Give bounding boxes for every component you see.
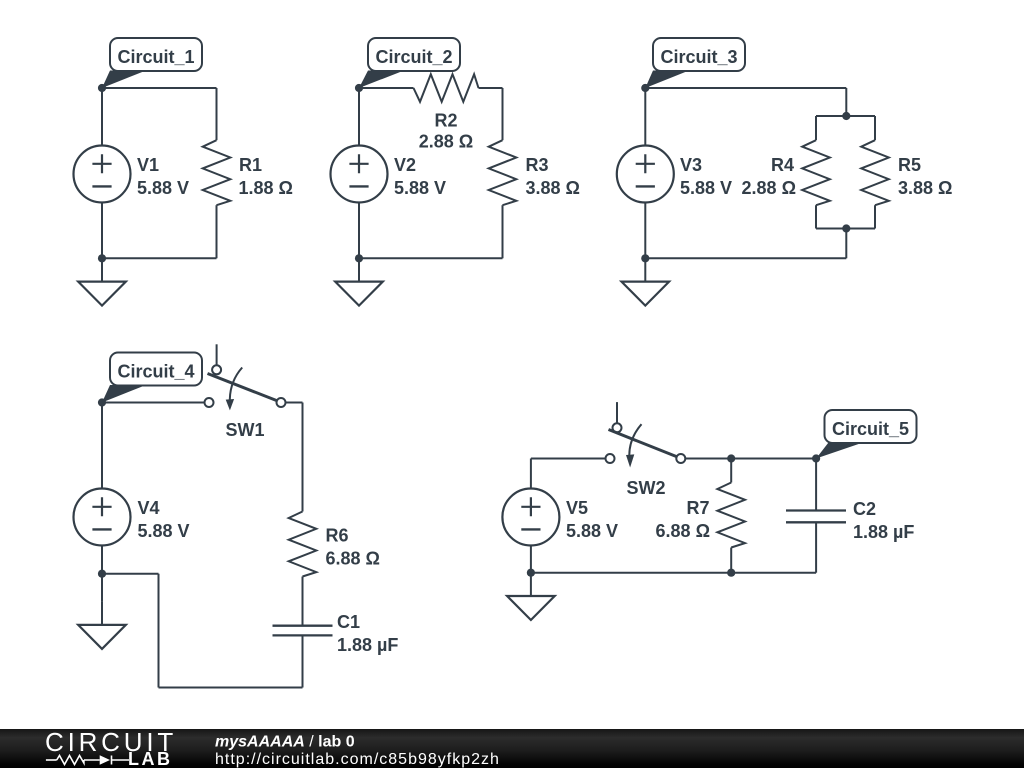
svg-text:C2: C2 — [853, 499, 876, 519]
resistor R1 — [203, 140, 231, 205]
label pointer Circuit_2 — [359, 71, 404, 89]
voltage source V4 — [74, 489, 131, 546]
svg-text:V3: V3 — [680, 155, 702, 175]
svg-text:3.88 Ω: 3.88 Ω — [526, 178, 580, 198]
svg-text:5.88 V: 5.88 V — [680, 178, 732, 198]
wire R6-to-C1 C4 — [302, 577, 304, 626]
wire R4-upper C3 — [815, 116, 817, 140]
wire left-lower C1 — [101, 202, 103, 258]
svg-text:Circuit_5: Circuit_5 — [832, 419, 909, 439]
svg-text:R1: R1 — [239, 155, 262, 175]
svg-text:R3: R3 — [526, 155, 549, 175]
node B3 — [641, 254, 649, 262]
switch SW2 — [606, 402, 686, 467]
svg-text:V5: V5 — [566, 498, 588, 518]
wire left-lower C2 — [358, 202, 360, 258]
wire R6-upper C4 — [302, 403, 304, 512]
capacitor C2 — [786, 511, 846, 523]
wire switch-left C4 — [102, 402, 205, 404]
wire switch-right C5 — [685, 458, 816, 460]
wire left-upper C3 — [644, 88, 646, 146]
logo resistor-diode glyph — [46, 756, 129, 765]
wire bottom C2 — [359, 257, 503, 259]
svg-text:6.88 Ω: 6.88 Ω — [656, 521, 710, 541]
wire V4-lower C4 — [101, 546, 103, 574]
svg-text:3.88 Ω: 3.88 Ω — [898, 178, 952, 198]
svg-text:2.88 Ω: 2.88 Ω — [742, 178, 796, 198]
svg-text:5.88 V: 5.88 V — [566, 521, 618, 541]
resistor R4 — [802, 140, 830, 205]
svg-text:C1: C1 — [337, 612, 360, 632]
svg-text:R2: R2 — [434, 111, 457, 131]
svg-text:R7: R7 — [686, 498, 709, 518]
resistor R6 — [289, 512, 317, 577]
resistor R7 — [717, 483, 745, 548]
svg-text:mysAAAAA / lab 0: mysAAAAA / lab 0 — [215, 734, 355, 751]
svg-text:V1: V1 — [137, 155, 159, 175]
footer bar — [0, 729, 1024, 768]
svg-text:1.88 µF: 1.88 µF — [337, 635, 398, 655]
node A3 — [641, 84, 649, 92]
wire C2-upper C5 — [815, 459, 817, 511]
voltage source V5 — [502, 489, 559, 546]
label box Circuit_1 — [110, 38, 202, 71]
wire switch-right C4 — [286, 402, 303, 404]
wire bottom C5 — [531, 572, 816, 574]
svg-text:V4: V4 — [138, 498, 160, 518]
wire mid-lower C3 — [845, 229, 847, 259]
svg-text:SW1: SW1 — [225, 420, 264, 440]
wire C1-lower C4 — [302, 635, 304, 687]
node A4 — [98, 398, 106, 406]
wire right-upper C2 — [502, 88, 504, 140]
wire bottom C1 — [102, 257, 217, 259]
voltage source V2 — [331, 146, 388, 203]
wire R5-lower C3 — [874, 205, 876, 228]
node A2 — [355, 84, 363, 92]
svg-text:LAB: LAB — [128, 749, 173, 768]
node B2 — [355, 254, 363, 262]
wire right-lower C1 — [216, 205, 218, 258]
node B1 — [98, 254, 106, 262]
wire mid-upper C3 — [845, 88, 847, 116]
svg-text:SW2: SW2 — [626, 478, 665, 498]
wire branch-top C3 — [816, 115, 875, 117]
wire top C1 — [102, 87, 217, 89]
resistor R5 — [861, 140, 889, 205]
svg-text:Circuit_2: Circuit_2 — [375, 47, 452, 67]
node C5top — [812, 454, 820, 462]
switch SW1 — [205, 344, 286, 410]
svg-text:R5: R5 — [898, 155, 921, 175]
wire bottom C3 — [645, 257, 846, 259]
ground G3 — [622, 258, 670, 305]
wire R7-lower C5 — [730, 548, 732, 573]
voltage source V3 — [617, 146, 674, 203]
wire R5-upper C3 — [874, 116, 876, 140]
wire top-left C5 — [531, 458, 606, 460]
label box Circuit_2 — [368, 38, 460, 71]
wire top C3 — [645, 87, 846, 89]
node B4 — [98, 570, 106, 578]
node R7bot — [727, 569, 735, 577]
wire right-upper C1 — [216, 88, 218, 140]
label pointer Circuit_5 — [816, 443, 863, 459]
capacitor C1 — [273, 626, 333, 636]
label pointer Circuit_3 — [645, 71, 689, 89]
svg-text:V2: V2 — [394, 155, 416, 175]
svg-text:Circuit_4: Circuit_4 — [117, 362, 194, 382]
node U3 — [842, 224, 850, 232]
node A5 — [727, 454, 735, 462]
wire top-left C2 — [359, 87, 414, 89]
svg-text:Circuit_1: Circuit_1 — [117, 47, 194, 67]
label box Circuit_5 — [825, 410, 917, 443]
wire node-to-riser C4 — [102, 573, 159, 575]
wire V4-upper C4 — [101, 403, 103, 489]
label box Circuit_3 — [653, 38, 745, 71]
svg-text:R6: R6 — [326, 526, 349, 546]
wire ground-stub C4 — [101, 574, 103, 602]
node B5 — [527, 569, 535, 577]
svg-text:1.88 Ω: 1.88 Ω — [239, 178, 293, 198]
resistor R3 — [489, 140, 517, 205]
svg-text:2.88 Ω: 2.88 Ω — [419, 132, 473, 152]
ground G4 — [78, 602, 126, 649]
ground G2 — [335, 258, 383, 305]
wire V5-upper C5 — [530, 459, 532, 489]
node T3 — [842, 112, 850, 120]
resistor R2 — [414, 74, 479, 102]
wire V5-lower C5 — [530, 546, 532, 573]
voltage source V1 — [74, 146, 131, 203]
svg-text:Circuit_3: Circuit_3 — [660, 47, 737, 67]
wire R4-lower C3 — [815, 205, 817, 228]
svg-text:R4: R4 — [771, 155, 794, 175]
svg-text:6.88 Ω: 6.88 Ω — [326, 549, 380, 569]
svg-text:http://circuitlab.com/c85b98yf: http://circuitlab.com/c85b98yfkp2zh — [215, 751, 500, 768]
wire left-upper C2 — [358, 88, 360, 146]
wire left-riser C4 — [158, 574, 160, 688]
node A1 — [98, 84, 106, 92]
wire left-lower C3 — [644, 202, 646, 258]
label pointer Circuit_1 — [102, 71, 146, 89]
wire C2-lower C5 — [815, 522, 817, 572]
label pointer Circuit_4 — [102, 385, 146, 403]
wire R7-upper C5 — [730, 459, 732, 483]
svg-text:5.88 V: 5.88 V — [394, 178, 446, 198]
wire top-right C2 — [479, 87, 503, 89]
wire right-lower C2 — [502, 205, 504, 258]
wire bottom C4 — [159, 687, 303, 689]
svg-text:1.88 µF: 1.88 µF — [853, 522, 914, 542]
wire left-upper C1 — [101, 88, 103, 146]
label box Circuit_4 — [110, 353, 202, 386]
wire branch-bottom C3 — [816, 228, 875, 230]
ground G1 — [78, 258, 126, 305]
svg-text:5.88 V: 5.88 V — [138, 521, 190, 541]
ground G5 — [507, 573, 555, 620]
svg-text:5.88 V: 5.88 V — [137, 178, 189, 198]
